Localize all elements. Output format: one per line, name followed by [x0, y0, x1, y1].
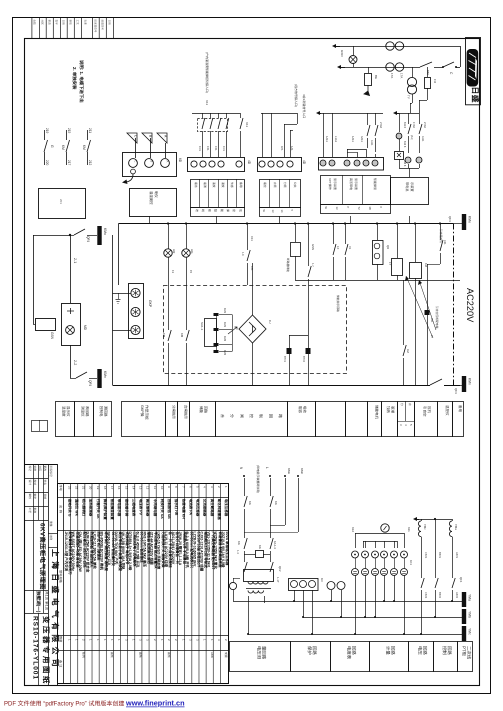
- GKP wires to left rail: [113, 293, 132, 295]
- svg-text:X11: X11: [245, 122, 249, 127]
- svg-text:50VA 单相电压互感器: 50VA 单相电压互感器: [225, 532, 230, 566]
- company logo box: [466, 38, 481, 105]
- svg-text:批准: 批准: [84, 20, 88, 26]
- svg-text:储能电机: 储能电机: [375, 405, 379, 419]
- PT TY: [412, 67, 414, 77]
- svg-text:交流接触器: 交流接触器: [203, 499, 208, 517]
- svg-text:保护: 保护: [307, 646, 312, 655]
- svg-text:成套: 成套: [224, 652, 228, 658]
- svg-text:审核: 审核: [28, 494, 32, 500]
- svg-text:柜内: 柜内: [82, 652, 86, 658]
- svg-text:温控仪 WK: 温控仪 WK: [74, 499, 79, 517]
- svg-text:上海日盛电气有限公司: 上海日盛电气有限公司: [51, 549, 60, 671]
- svg-text:4A11: 4A11: [370, 140, 373, 146]
- svg-text:1P1: 1P1: [280, 146, 284, 151]
- svg-text:签字: 签字: [55, 20, 59, 26]
- svg-text:合闸指示: 合闸指示: [184, 405, 188, 419]
- svg-text:KM1: KM1: [223, 308, 226, 314]
- PT metering box 612 611: [355, 533, 404, 535]
- svg-text:1T: 1T: [388, 262, 392, 266]
- svg-text:KM: KM: [180, 333, 184, 338]
- svg-text:显示装置: 显示装置: [354, 178, 358, 190]
- svg-text:面板: 面板: [139, 652, 143, 658]
- svg-text:回路: 回路: [390, 646, 395, 655]
- svg-text:P: P: [346, 207, 350, 209]
- label band group C numbers: [321, 205, 391, 214]
- svg-text:处数: 处数: [33, 20, 37, 26]
- rectifier connections: [252, 263, 254, 315]
- svg-text:X11: X11: [205, 100, 209, 105]
- svg-text:温湿度控: 温湿度控: [149, 191, 153, 205]
- SA1 wiring to rectifier: [219, 314, 232, 316]
- rectifier bridge diamond: [239, 315, 266, 343]
- svg-text:A602: A602: [455, 592, 459, 599]
- svg-text:电流表 PA: 电流表 PA: [188, 499, 193, 516]
- svg-text:KA: KA: [258, 545, 262, 549]
- svg-text:分区: 分区: [41, 20, 45, 26]
- group D branch 2: [408, 113, 410, 124]
- svg-text:示装置: 示装置: [410, 182, 414, 192]
- svg-text:作显示板: 作显示板: [144, 405, 149, 420]
- terminal bar KMn right bottom: [453, 385, 462, 387]
- svg-text:热继电器 KH: 热继电器 KH: [181, 499, 186, 519]
- svg-text:YMa: YMa: [468, 594, 472, 601]
- svg-text:温控仪: 温控仪: [445, 405, 449, 416]
- svg-text:路: 路: [278, 414, 283, 418]
- terminal strip 4D group A: [188, 158, 245, 172]
- group A top wiring: [192, 113, 240, 115]
- svg-text:C602: C602: [424, 592, 428, 599]
- group C nested wiring: [347, 149, 366, 151]
- small ground under GKP wire: [118, 293, 120, 299]
- middle wire B601: [435, 519, 437, 578]
- svg-text:加热: 加热: [386, 406, 390, 414]
- svg-text:KA 1-3: KA 1-3: [273, 541, 277, 549]
- terminal bar YMa: [462, 592, 466, 607]
- svg-text:仪: 仪: [238, 209, 242, 212]
- svg-text:(远方信号接入口): (远方信号接入口): [294, 84, 298, 107]
- svg-text:WK-SG2T AC220V 50Hz: WK-SG2T AC220V 50Hz: [71, 532, 75, 572]
- svg-text:名 称: 名 称: [59, 505, 63, 514]
- svg-text:日盛: 日盛: [470, 87, 479, 103]
- lamp GSN: [353, 46, 355, 55]
- svg-text:19: 19: [96, 486, 100, 490]
- svg-text:VS1-12/1250-31.5 6kV: VS1-12/1250-31.5 6kV: [207, 532, 211, 568]
- AC220V supply dash-dot line: [453, 224, 455, 386]
- RC snubber branch: [295, 280, 297, 302]
- svg-text:湿度: 湿度: [221, 182, 225, 188]
- label band group A bottom: [191, 208, 245, 217]
- svg-text:27A6: 27A6: [379, 122, 383, 129]
- svg-text:212: 212: [88, 160, 92, 166]
- svg-text:1-4: 1-4: [236, 550, 240, 554]
- feeder drops from strips to bus: [149, 216, 151, 224]
- svg-text:(A1): (A1): [410, 135, 413, 140]
- svg-text:工艺: 工艺: [76, 20, 80, 26]
- svg-text:控制按钮 SB: 控制按钮 SB: [167, 499, 172, 519]
- svg-text:源回路: 源回路: [103, 406, 107, 417]
- storage motor branches: [333, 224, 335, 245]
- group D branch 1 with squares: [399, 113, 401, 132]
- svg-text:合闸: 合闸: [273, 182, 277, 188]
- bottom bus N rail: [113, 385, 461, 387]
- title block grid: [25, 464, 58, 466]
- branch L: [270, 478, 272, 496]
- svg-text:加热驱潮器: 加热驱潮器: [89, 498, 94, 517]
- aux switch branch KM 211: [87, 130, 89, 140]
- svg-text:11: 11: [153, 486, 157, 489]
- svg-text:KM2: KM2: [223, 350, 226, 356]
- material list table frame: [58, 484, 229, 684]
- svg-text:变压器专用图纸: 变压器专用图纸: [42, 616, 51, 686]
- binding margin revision strip cells: [31, 18, 33, 39]
- GKP strip box: [129, 284, 144, 339]
- svg-text:回路: 回路: [312, 646, 317, 655]
- svg-text:线: 线: [201, 209, 205, 212]
- group B top wiring: [261, 113, 297, 115]
- svg-text:1S1: 1S1: [214, 146, 218, 151]
- svg-text:KM: KM: [426, 70, 430, 75]
- branch KMo: [285, 478, 287, 525]
- GSN box: [36, 319, 56, 331]
- svg-text:1N1: 1N1: [198, 146, 202, 151]
- PT coil wire with arrow: [413, 517, 417, 521]
- svg-text:断路器储能: 断路器储能: [286, 258, 290, 272]
- aux switch branch G: [44, 130, 46, 140]
- svg-text:显示装置: 显示装置: [333, 178, 337, 190]
- svg-text:L1A1: L1A1: [334, 136, 338, 143]
- svg-text:回路: 回路: [351, 646, 356, 655]
- branch GSN contact: [308, 224, 310, 267]
- QF2 contacts: [244, 554, 246, 562]
- svg-text:1N1: 1N1: [222, 146, 226, 151]
- svg-text:控: 控: [249, 414, 254, 418]
- KA contacts lower: [244, 538, 247, 549]
- svg-text:标记: 标记: [28, 466, 32, 472]
- svg-text:13: 13: [171, 270, 175, 274]
- svg-text:操: 操: [226, 209, 230, 212]
- svg-text:2-2: 2-2: [73, 360, 77, 365]
- svg-text:显示仪: 显示仪: [66, 406, 70, 417]
- svg-text:遥测: 遥测: [203, 182, 207, 188]
- svg-text:201: 201: [59, 199, 63, 204]
- svg-text:面板: 面板: [167, 652, 171, 658]
- svg-text:612: 612: [351, 527, 355, 532]
- dashed enclosure: [164, 286, 347, 374]
- svg-text:(带电显示装置闭锁用): (带电显示装置闭锁用): [256, 465, 260, 493]
- svg-text:1A1: 1A1: [290, 146, 294, 151]
- branch N: [244, 478, 246, 496]
- svg-text:LZZBJ9-10 600/5 6kV: LZZBJ9-10 600/5 6kV: [192, 532, 196, 567]
- svg-text:YMa: YMa: [454, 524, 458, 530]
- svg-text:电压: 电压: [417, 646, 422, 655]
- svg-text:公共: 公共: [293, 182, 297, 188]
- svg-text:储能指示回路: 储能指示回路: [336, 295, 340, 312]
- svg-text:分: 分: [400, 403, 404, 406]
- svg-text:遥控: 遥控: [263, 182, 267, 188]
- svg-text:220: 220: [45, 160, 49, 166]
- svg-text:QF2: QF2: [278, 566, 282, 572]
- storage sub-bus: [295, 280, 460, 282]
- label box 温湿度控制仪: [130, 189, 177, 217]
- svg-text:BT02: BT02: [302, 356, 305, 363]
- wire left down to GSN: [33, 235, 35, 324]
- svg-text:PT柜: PT柜: [461, 646, 466, 657]
- svg-text:温湿度: 温湿度: [62, 406, 66, 417]
- svg-text:引自空: 引自空: [423, 406, 427, 417]
- svg-text:制仪: 制仪: [154, 191, 158, 198]
- relay contact box dashed: [198, 119, 228, 132]
- svg-text:NK96-II AC220V 开孔: NK96-II AC220V 开孔: [107, 532, 111, 567]
- terminal bar YMc: [462, 626, 466, 641]
- lamp branch HR: [168, 224, 170, 250]
- svg-text:219: 219: [45, 128, 49, 134]
- svg-text:GSN: GSN: [311, 244, 315, 250]
- BE element: [368, 67, 370, 73]
- svg-text:三相电度表: 三相电度表: [131, 499, 136, 517]
- svg-text:TY: TY: [407, 95, 411, 99]
- svg-text:吸收: 吸收: [302, 406, 306, 413]
- contact X21 branch: [440, 224, 442, 241]
- svg-text:ABB: ABB: [210, 652, 214, 658]
- svg-text:柜内照明灯: 柜内照明灯: [82, 498, 86, 517]
- strip 3 circles lower: [289, 579, 319, 591]
- svg-text:22: 22: [74, 486, 78, 490]
- svg-text:电流互感器: 电流互感器: [196, 499, 201, 517]
- function label row upper: [56, 402, 75, 437]
- svg-text:备用: 备用: [458, 405, 462, 413]
- svg-text:611: 611: [407, 527, 411, 532]
- svg-text:20: 20: [89, 486, 93, 490]
- svg-text:分区: 分区: [38, 466, 42, 472]
- svg-text:合: 合: [408, 403, 412, 406]
- svg-text:KM: KM: [61, 145, 65, 150]
- phase flag C: [127, 133, 137, 143]
- svg-text:面板: 面板: [110, 652, 114, 658]
- svg-text:6D: 6D: [178, 158, 182, 163]
- fuse pair circles: [327, 582, 335, 590]
- svg-text:KMn: KMn: [468, 378, 472, 385]
- svg-text:阻容: 阻容: [298, 406, 302, 414]
- svg-text:C601: C601: [424, 552, 428, 559]
- svg-text:A: A: [166, 161, 170, 163]
- svg-text:传感: 传感: [230, 182, 234, 188]
- KA coil: [244, 554, 255, 556]
- label box 带电显示器: [391, 178, 429, 205]
- svg-text:4D: 4D: [302, 160, 306, 165]
- svg-text:高压带电: 高压带电: [349, 178, 353, 190]
- svg-text:L: L: [265, 467, 269, 469]
- transformer T1 primary box: [244, 570, 274, 582]
- terminal strip 6D with 3 circles: [123, 153, 177, 177]
- svg-text:电压表 PV: 电压表 PV: [139, 499, 143, 516]
- svg-text:4A11: 4A11: [421, 136, 424, 142]
- svg-text:底图总号: 底图总号: [101, 20, 105, 31]
- svg-text:AC220V: AC220V: [465, 288, 475, 323]
- svg-text:A601: A601: [455, 552, 459, 559]
- svg-text:共1页 第1页: 共1页 第1页: [45, 591, 50, 611]
- svg-text:更改: 更改: [48, 20, 52, 26]
- svg-text:27A6: 27A6: [423, 122, 426, 128]
- terminal bar KM0 top: [97, 226, 101, 245]
- svg-text:KA: KA: [237, 541, 241, 545]
- single circle at table edge: [229, 582, 236, 589]
- svg-text:微机保护装置: 微机保护装置: [103, 498, 108, 520]
- svg-text:重量: 重量: [49, 521, 53, 527]
- function label row lower: [230, 642, 291, 672]
- svg-text:审定: 审定: [33, 494, 37, 500]
- svg-text:14: 14: [131, 486, 135, 490]
- svg-text:量回路: 量回路: [261, 646, 266, 660]
- svg-text:中间继电器: 中间继电器: [153, 499, 158, 517]
- svg-text:合: 合: [220, 414, 225, 418]
- svg-text:带电显: 带电显: [405, 182, 409, 192]
- svg-text:说明: 1. 电缆下进下出: 说明: 1. 电缆下进下出: [79, 60, 84, 103]
- svg-text:CM-1型 LED AC36V 20W: CM-1型 LED AC36V 20W: [78, 532, 82, 573]
- svg-text:数量: 数量: [59, 636, 63, 643]
- QF4 upper branch: [33, 235, 70, 237]
- wires flags to terminals: [135, 138, 137, 158]
- group C branch pair 1: [323, 113, 325, 157]
- svg-text:温度: 温度: [212, 182, 216, 188]
- box R1: [39, 189, 86, 219]
- svg-text:日期: 日期: [62, 20, 66, 26]
- svg-text:真空断路器: 真空断路器: [210, 499, 215, 517]
- transformer T1 windings: [248, 582, 268, 585]
- CT pair on wire A: [386, 42, 394, 50]
- svg-text:KMn: KMn: [300, 468, 304, 475]
- svg-text:日期: 日期: [108, 20, 112, 26]
- svg-text:电压互感器: 电压互感器: [224, 499, 229, 517]
- contact C to bus: [443, 66, 456, 68]
- svg-text:工艺: 工艺: [28, 508, 32, 514]
- svg-text:13: 13: [139, 486, 143, 490]
- pointer arrows to air compressor: [406, 276, 433, 338]
- terminal bar KMo right top: [453, 223, 458, 225]
- svg-text:AD11-25/41 AC220V: AD11-25/41 AC220V: [171, 532, 175, 565]
- test terminal row 2: [352, 569, 359, 576]
- svg-text:QF1: QF1: [459, 577, 463, 583]
- svg-text:转换开关 SA: 转换开关 SA: [160, 499, 165, 519]
- svg-text:X11: X11: [250, 236, 254, 241]
- label cells group B: [260, 180, 301, 208]
- svg-text:回: 回: [268, 414, 273, 418]
- svg-text:1TA: 1TA: [400, 73, 404, 78]
- label cells group A: [191, 180, 245, 208]
- svg-text:15: 15: [124, 486, 128, 490]
- svg-text:2-1: 2-1: [73, 258, 77, 263]
- svg-text:计量: 计量: [385, 646, 390, 655]
- svg-text:控制: 控制: [442, 646, 447, 655]
- svg-text:QF3: QF3: [454, 388, 458, 394]
- svg-text:1D: 1D: [320, 578, 324, 582]
- svg-text:BT01: BT01: [283, 356, 286, 363]
- svg-text:QF3: QF3: [448, 216, 452, 222]
- collector rail a: [233, 601, 462, 603]
- svg-text:17A6: 17A6: [412, 122, 415, 128]
- label cells group C: [321, 176, 391, 205]
- svg-text:回路: 回路: [203, 406, 207, 414]
- svg-text:B601: B601: [438, 552, 442, 559]
- svg-text:型号规格: 型号规格: [59, 570, 63, 584]
- svg-text:引自空压机配电箱: 引自空压机配电箱: [435, 306, 439, 329]
- air compressor boxes: [415, 224, 417, 263]
- svg-text:氧化锌避雷器: 氧化锌避雷器: [217, 498, 222, 520]
- svg-text:BE: BE: [374, 75, 378, 79]
- svg-text:KM: KM: [82, 145, 86, 150]
- contact X11 on branch: [240, 113, 242, 118]
- svg-text:KA: KA: [248, 501, 252, 505]
- heater branch 1T: [397, 224, 399, 259]
- svg-text:3B: 3B: [368, 207, 372, 210]
- svg-text:15: 15: [189, 270, 193, 274]
- lamp branch HG: [186, 224, 188, 250]
- terminal strip 4D group B: [258, 158, 302, 172]
- phase flag A: [157, 133, 167, 143]
- phase flag B: [142, 133, 152, 143]
- svg-text:KMo: KMo: [468, 216, 472, 223]
- svg-text:1A11: 1A11: [351, 136, 355, 142]
- svg-text:智能操显: 智能操显: [373, 178, 377, 190]
- svg-text:日期: 日期: [43, 494, 47, 500]
- svg-text:控: 控: [232, 209, 236, 212]
- svg-text:制: 制: [259, 414, 264, 418]
- branch X11 into dashed box: [247, 224, 249, 251]
- svg-text:高压熔断器: 高压熔断器: [146, 499, 151, 517]
- svg-text:GKP操: GKP操: [140, 405, 145, 417]
- svg-text:更改: 更改: [43, 466, 47, 472]
- group C feed arrow: [316, 111, 320, 115]
- upper feed wire with arrow: [332, 44, 336, 48]
- ground terminal small circle and hook: [131, 169, 136, 174]
- terminal bar YMb: [462, 609, 466, 624]
- svg-text:1X: 1X: [336, 246, 340, 249]
- svg-text:电压测: 电压测: [256, 646, 261, 660]
- svg-text:G: G: [50, 145, 54, 148]
- wire 2-1 down to MD: [70, 235, 72, 303]
- svg-text:KM2: KM2: [223, 336, 226, 342]
- company logo mark NSMO: [467, 49, 479, 87]
- svg-text:2. 单独安装: 2. 单独安装: [72, 67, 77, 90]
- wire 2-2 down from MD: [70, 345, 72, 378]
- svg-text:序号: 序号: [59, 485, 63, 491]
- drops from test terminals: [355, 576, 357, 635]
- branch KMn: [298, 478, 300, 532]
- svg-text:HG: HG: [190, 249, 194, 254]
- svg-text:XPT操作: XPT操作: [328, 178, 332, 190]
- svg-text:YMb: YMb: [468, 611, 472, 618]
- svg-text:柜: 柜: [207, 209, 211, 212]
- svg-text:接地开关 G: 接地开关 G: [67, 499, 71, 517]
- group D bottom tie: [399, 168, 419, 170]
- svg-text:1K1: 1K1: [409, 560, 413, 565]
- svg-text:阶段标记: 阶段标记: [49, 466, 53, 477]
- svg-text:比例: 比例: [49, 535, 53, 541]
- svg-text:压机: 压机: [427, 406, 431, 413]
- svg-text:审核: 审核: [69, 20, 73, 26]
- svg-text:KMo: KMo: [103, 228, 107, 235]
- svg-text:校对: 校对: [33, 480, 37, 486]
- svg-text:MD: MD: [83, 325, 87, 331]
- svg-text:旧底图总号: 旧底图总号: [94, 20, 98, 33]
- svg-text:进: 进: [195, 209, 199, 212]
- svg-text:211: 211: [88, 128, 92, 133]
- svg-text:YMc: YMc: [468, 628, 472, 635]
- svg-text:KM: KM: [162, 333, 166, 338]
- svg-text:智能操显装置: 智能操显装置: [110, 498, 115, 520]
- svg-text:QF4: QF4: [88, 380, 92, 386]
- charging motor QD: [377, 224, 379, 241]
